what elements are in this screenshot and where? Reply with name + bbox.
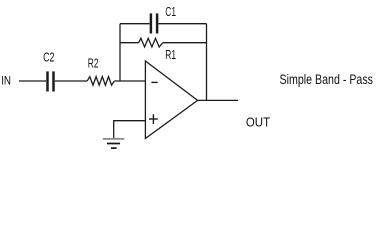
wire feedback top branch left xyxy=(120,23,150,25)
svg-text:R1: R1 xyxy=(165,47,176,62)
node A junction vertical wire xyxy=(119,24,121,81)
op-amp U1 triangle xyxy=(145,61,197,139)
svg-text:R2: R2 xyxy=(88,56,99,71)
svg-text:C2: C2 xyxy=(43,49,54,64)
svg-text:IN: IN xyxy=(1,73,11,87)
op-amp non-inverting input marker (plus) xyxy=(149,114,158,124)
capacitor C2 xyxy=(48,71,54,91)
wire R1 branch left xyxy=(120,42,139,44)
svg-text:Simple Band - Pass: Simple Band - Pass xyxy=(280,72,374,87)
resistor R2 xyxy=(87,77,114,86)
op-amp inverting input marker (minus) xyxy=(151,81,157,83)
wire feedback right vertical to output xyxy=(206,24,208,101)
wire feedback top branch right xyxy=(158,23,206,25)
svg-text:OUT: OUT xyxy=(246,114,270,129)
wire R2 to U1 inverting input xyxy=(114,80,145,82)
wire R1 branch right xyxy=(163,42,207,44)
svg-text:C1: C1 xyxy=(165,4,176,19)
wire IN to C2 xyxy=(19,80,46,82)
resistor R1 xyxy=(139,38,163,47)
wire U1 output xyxy=(198,99,238,101)
ground xyxy=(103,139,124,148)
wire non-inverting input to ground xyxy=(114,121,146,139)
capacitor C1 xyxy=(151,13,157,33)
wire C2 to R2 xyxy=(55,80,87,82)
